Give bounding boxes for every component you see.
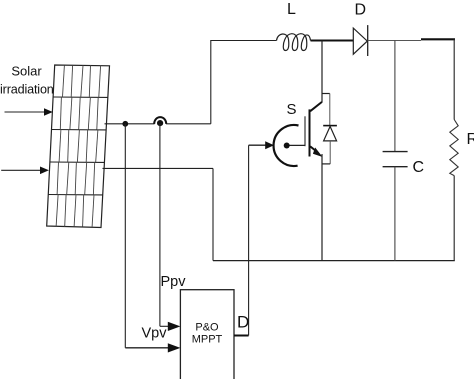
svg-text:D: D: [237, 313, 249, 332]
label R: [467, 131, 474, 148]
Ppv sense riser: [160, 124, 169, 326]
load branch lower lead: [453, 176, 455, 261]
diode D: [353, 25, 367, 56]
IGBT gate lead: [289, 144, 306, 146]
top rail left: [210, 40, 276, 42]
capacitor branch top: [394, 41, 396, 152]
top rail right: [368, 40, 421, 42]
svg-text:P&O: P&O: [195, 322, 219, 334]
top rail mid (bold): [311, 40, 354, 42]
freewheel diode top lead: [329, 94, 331, 126]
gate drive riser: [248, 145, 250, 335]
svg-text:S: S: [287, 101, 297, 118]
irradiation arrow 1: [5, 108, 53, 116]
label S: [287, 101, 297, 118]
inductor L: [277, 34, 311, 51]
junction dot: [122, 121, 128, 127]
IGBT body bar: [309, 109, 311, 156]
svg-text:Ppv: Ppv: [161, 274, 187, 290]
label Ppv: [161, 274, 187, 290]
PV panel outline: [47, 65, 110, 228]
sensor dot: [157, 120, 163, 126]
IGBT emitter diagonal: [310, 146, 322, 157]
freewheel diode cathode bar: [323, 125, 337, 127]
collector riser: [321, 41, 323, 103]
load branch upper lead: [453, 39, 455, 119]
gate drive arrow: [249, 141, 274, 149]
wire PV+ top: [105, 123, 211, 125]
freewheel diode triangle: [324, 126, 337, 140]
resistor R: [450, 120, 458, 176]
label Solar irradiation: [0, 64, 54, 97]
svg-text:MPPT: MPPT: [192, 334, 223, 346]
Vpv riser: [125, 124, 168, 348]
D output lead: [234, 335, 249, 337]
label C: [413, 159, 425, 176]
gate arc: [274, 125, 299, 166]
collector jog: [322, 93, 330, 95]
left bottom riser: [212, 168, 214, 260]
svg-text:R: R: [467, 131, 474, 148]
label P&O MPPT: [192, 322, 223, 346]
irradiation arrow 2: [1, 167, 49, 175]
label L: [287, 1, 296, 18]
svg-text:irradiation: irradiation: [0, 83, 54, 97]
label D: [355, 2, 367, 19]
svg-text:C: C: [413, 159, 425, 176]
capacitor C plates: [383, 152, 408, 167]
IGBT gate bar: [304, 116, 306, 146]
svg-text:D: D: [355, 2, 367, 19]
arrow Vpv into box: [168, 343, 181, 352]
IGBT collector diagonal: [310, 102, 322, 111]
label D output: [237, 313, 249, 332]
emitter-diode link: [322, 163, 330, 165]
svg-text:Solar: Solar: [11, 64, 42, 79]
emitter riser: [321, 154, 323, 261]
freewheel diode lower lead: [329, 141, 331, 164]
arrow Ppv into box: [168, 322, 181, 331]
top rail right bold: [421, 38, 455, 40]
svg-text:L: L: [287, 1, 296, 18]
label Vpv: [142, 326, 168, 342]
gate node dot: [284, 143, 290, 149]
svg-text:Vpv: Vpv: [142, 326, 168, 342]
MPPT box: [180, 290, 234, 379]
wire riser to top rail: [210, 41, 212, 124]
capacitor branch bottom: [394, 167, 396, 261]
current-sensor hop: [154, 117, 166, 124]
bottom rail: [213, 260, 455, 262]
wire PV-: [103, 167, 214, 169]
